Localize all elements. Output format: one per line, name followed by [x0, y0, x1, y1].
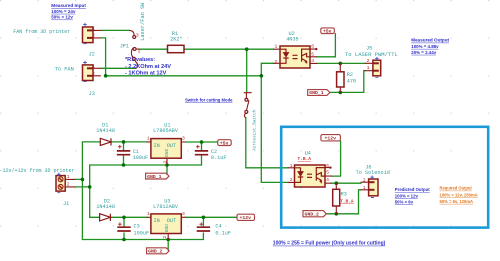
svg-text:- 1KOhm at 12V: - 1KOhm at 12V	[125, 70, 167, 76]
wire D2 to U3 IN	[111, 216, 148, 218]
junction U3 gnd	[166, 238, 170, 242]
wire U2 pin4 row to J5 pin2	[317, 62, 365, 64]
svg-text:T.B.A: T.B.A	[298, 156, 312, 162]
svg-text:1: 1	[275, 44, 278, 50]
svg-text:C3: C3	[134, 224, 140, 230]
svg-text:2: 2	[162, 236, 168, 239]
junction C3 top	[122, 216, 126, 220]
resistor R3	[333, 183, 354, 214]
svg-text:Predicted Output: Predicted Output	[395, 187, 430, 192]
svg-text:2: 2	[363, 178, 366, 184]
svg-text:100uF: 100uF	[133, 155, 149, 161]
regulator U3	[147, 198, 185, 239]
svg-text:0.1uF: 0.1uF	[215, 230, 231, 236]
capacitor C1	[117, 145, 148, 161]
wire JP1 pin2 to R1	[139, 48, 168, 50]
svg-text:6: 6	[311, 44, 314, 50]
connector J3	[83, 61, 101, 97]
resistor R1	[168, 31, 185, 53]
wire U3 OUT to +12v	[185, 216, 237, 218]
svg-text:3: 3	[136, 32, 139, 38]
svg-text:2: 2	[67, 181, 70, 187]
junction C1 bottom	[122, 163, 126, 167]
junction R1 output	[245, 47, 249, 51]
power +5v at U2	[321, 28, 335, 35]
svg-text:T.B.A: T.B.A	[340, 198, 354, 204]
connector J6	[356, 165, 390, 198]
svg-text:1: 1	[147, 211, 150, 217]
junction R2 top	[339, 62, 343, 66]
svg-text:0.1uF: 0.1uF	[211, 155, 227, 161]
svg-text:5: 5	[311, 51, 314, 57]
wire R1 to U2 pin1	[184, 48, 274, 50]
wire U1 ground rail	[90, 164, 202, 166]
wire C3 leads	[123, 217, 125, 239]
svg-text:50% = 12v: 50% = 12v	[51, 15, 73, 20]
junction J1 pin2	[88, 185, 92, 189]
svg-text:To FAN: To FAN	[55, 67, 74, 73]
svg-text:*R1 values:: *R1 values:	[125, 57, 155, 63]
junction C4 top	[202, 216, 206, 220]
junction C3 bottom	[122, 238, 126, 242]
switch JP1	[120, 30, 141, 68]
svg-text:C4: C4	[215, 224, 221, 230]
wire C1 leads	[123, 142, 125, 165]
connector J5	[345, 45, 398, 77]
capacitor C3	[117, 222, 149, 236]
wire J3 pin2 row to right	[106, 75, 262, 77]
svg-text:100% = 12v, 250mA: 100% = 12v, 250mA	[440, 193, 478, 198]
svg-text:1N4148: 1N4148	[96, 204, 115, 210]
ground GND_1 at U2	[308, 90, 330, 97]
junction J1 pin1	[81, 178, 85, 182]
junction U2 pin2 net	[260, 74, 264, 78]
resistor R2	[337, 63, 357, 92]
junction C1 top	[122, 140, 126, 144]
wire switch to U4 pin1	[246, 118, 288, 168]
wire U3 gnd drop to GND_2	[167, 240, 169, 250]
svg-text:GND_2: GND_2	[148, 249, 163, 255]
svg-text:Required Output: Required Output	[440, 186, 473, 191]
optocoupler U4	[288, 150, 332, 187]
svg-text:100% = 12v: 100% = 12v	[395, 193, 419, 198]
diode D1	[96, 122, 115, 145]
svg-text:J2: J2	[89, 52, 95, 58]
svg-text:3: 3	[182, 211, 185, 217]
svg-text:To Solenoid: To Solenoid	[356, 170, 390, 176]
wire U3 ground rail	[82, 239, 203, 241]
svg-text:1: 1	[67, 174, 70, 180]
power +5v at C2	[218, 140, 232, 147]
svg-text:+12v: +12v	[240, 215, 252, 221]
svg-text:2: 2	[92, 71, 95, 77]
capacitor C4	[197, 222, 231, 236]
wire R3 bottom row to J6 pin1	[326, 190, 361, 214]
junction R3 bottom	[335, 212, 339, 216]
svg-text:J1: J1	[63, 201, 69, 207]
svg-text:- 2.2KOhm at 24V: - 2.2KOhm at 24V	[125, 64, 171, 70]
svg-text:GND: GND	[164, 148, 170, 157]
svg-text:AirAssist_Switch: AirAssist_Switch	[253, 109, 258, 151]
svg-text:+5v: +5v	[220, 140, 229, 146]
junction R3 top	[335, 181, 339, 185]
svg-text:2: 2	[275, 59, 278, 65]
svg-text:-12v/+12v from 3D printer: -12v/+12v from 3D printer	[0, 168, 75, 174]
connector J1	[56, 173, 75, 207]
svg-text:1: 1	[92, 63, 95, 69]
svg-text:2: 2	[163, 160, 169, 163]
wire U4 pin4 row to J6 pin2	[331, 182, 361, 184]
svg-text:R2: R2	[347, 72, 353, 78]
svg-text:100% = 4.88v: 100% = 4.88v	[411, 44, 439, 49]
capacitor C2	[195, 145, 227, 161]
junction C2 top	[200, 140, 204, 144]
svg-text:3: 3	[182, 136, 185, 142]
ground GND_1 at U1	[146, 173, 169, 180]
ground GND_2 at R3	[303, 211, 326, 218]
svg-text:U4: U4	[305, 150, 311, 156]
svg-text:To LASER PWM/TTL: To LASER PWM/TTL	[345, 51, 398, 58]
svg-text:4N35: 4N35	[286, 36, 298, 42]
svg-text:+12v: +12v	[325, 136, 337, 142]
wire junction drop to switch	[246, 49, 248, 92]
wire +12v drop to U4 pin5	[332, 141, 341, 176]
wire J1 pin1 net	[75, 142, 101, 240]
svg-text:FAN from 3D printer: FAN from 3D printer	[13, 29, 70, 35]
wire C2 leads	[201, 142, 203, 165]
diode D2	[96, 198, 115, 221]
junction J2/J3 pin2	[104, 74, 108, 78]
svg-text:J3: J3	[89, 91, 95, 97]
wire J2 pin2 down to J3 pin2 row	[101, 38, 106, 76]
svg-text:50% = 6v, 125mA: 50% = 6v, 125mA	[440, 199, 474, 204]
svg-text:470: 470	[347, 78, 356, 84]
svg-text:2K2*: 2K2*	[170, 37, 182, 43]
optocoupler U2	[274, 31, 318, 68]
svg-text:Laser/Fan SW: Laser/Fan SW	[140, 2, 146, 41]
highlight blue frame	[281, 127, 488, 228]
svg-text:4: 4	[326, 177, 329, 183]
junction U1 gnd	[165, 163, 169, 167]
connector J2	[83, 23, 101, 58]
svg-text:Measured Output: Measured Output	[411, 38, 449, 43]
svg-text:50% = 6v: 50% = 6v	[395, 199, 414, 204]
switch AirAssist (cutting mode)	[244, 93, 251, 118]
svg-text:1: 1	[290, 163, 293, 169]
wire +5v drop to U2 pin5	[316, 34, 335, 57]
svg-text:2: 2	[367, 58, 370, 64]
svg-text:IN: IN	[154, 218, 160, 224]
svg-text:L7812ABV: L7812ABV	[153, 204, 179, 210]
svg-text:Switch for cutting Mode: Switch for cutting Mode	[185, 97, 233, 102]
svg-text:4: 4	[311, 58, 314, 64]
svg-text:JP1: JP1	[120, 43, 129, 49]
svg-text:GND_1: GND_1	[147, 174, 162, 180]
svg-text:GND_1: GND_1	[309, 90, 324, 96]
svg-text:OUT: OUT	[167, 218, 176, 224]
svg-text:+5v: +5v	[323, 28, 332, 34]
wire C4 leads	[202, 217, 204, 239]
svg-text:R3: R3	[341, 192, 347, 198]
svg-text:100% = 255 = Full power (Only: 100% = 255 = Full power (Only used for c…	[273, 241, 386, 247]
svg-text:IN: IN	[154, 143, 160, 149]
svg-text:GND_2: GND_2	[305, 212, 320, 218]
wire U1 gnd drop to GND_1	[166, 165, 168, 174]
svg-text:Measured Input: Measured Input	[51, 3, 86, 8]
wire R2 bottom row to J5 pin1	[330, 71, 365, 93]
svg-text:1: 1	[363, 185, 366, 191]
regulator U1	[147, 122, 185, 165]
wire U2 pin2 link down	[261, 63, 273, 76]
svg-text:6: 6	[326, 163, 329, 169]
svg-text:5: 5	[326, 169, 329, 175]
wire J2 pin1 to JP1 pin3	[101, 29, 130, 31]
svg-text:GND: GND	[164, 224, 170, 233]
wire D1 to U1 IN	[111, 141, 147, 143]
svg-text:OUT: OUT	[167, 143, 176, 149]
svg-text:1N4148: 1N4148	[96, 128, 115, 134]
svg-text:1: 1	[92, 25, 95, 31]
wire down to U4 pin2	[261, 76, 288, 183]
svg-text:2: 2	[138, 48, 141, 54]
svg-text:1: 1	[147, 136, 150, 142]
power +12v at C4	[237, 214, 255, 221]
svg-text:1: 1	[367, 65, 370, 71]
svg-text:L7805ABV: L7805ABV	[153, 128, 179, 134]
wire J3 pin1 to JP1 pin1	[101, 67, 136, 69]
wire J1 pin2 net	[75, 165, 100, 217]
svg-text:20% = 2.44v: 20% = 2.44v	[411, 50, 436, 55]
junction R2 bottom	[339, 91, 343, 95]
svg-text:100% = 24v: 100% = 24v	[51, 9, 76, 14]
wire U1 OUT to +5v	[185, 141, 218, 143]
svg-text:2: 2	[290, 177, 293, 183]
svg-text:2: 2	[92, 33, 95, 39]
ground GND_2 at U3	[147, 248, 170, 255]
svg-text:100uF: 100uF	[134, 230, 150, 236]
power +12v at U4	[321, 135, 341, 142]
